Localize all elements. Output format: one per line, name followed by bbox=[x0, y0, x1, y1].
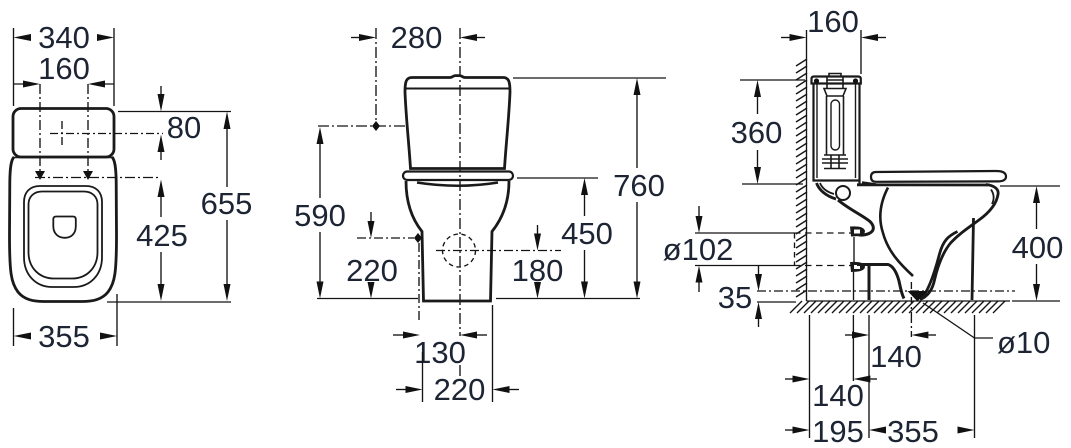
cistern outline bbox=[405, 76, 510, 169]
pedestal front vertical bbox=[972, 218, 974, 300]
svg-text:180: 180 bbox=[512, 253, 564, 288]
svg-text:360: 360 bbox=[731, 115, 783, 150]
foot left block bbox=[857, 265, 904, 299]
dim 80 top arrow bbox=[158, 94, 165, 112]
trap centre ext dash-dot bbox=[910, 314, 912, 337]
hinge detail bbox=[862, 183, 876, 185]
svg-text:ø10: ø10 bbox=[997, 325, 1050, 360]
bowl outline bbox=[10, 157, 117, 302]
hole markers bbox=[35, 171, 45, 180]
dim 355 arrows bbox=[869, 427, 886, 434]
dim 195 arrow bbox=[793, 427, 810, 434]
dim 80 bottom arrow bbox=[158, 135, 165, 153]
lower outlet hook bbox=[850, 262, 865, 272]
floor extension line bbox=[317, 298, 640, 300]
floor hatching bbox=[790, 301, 1005, 313]
bowl back edge bbox=[853, 237, 855, 262]
svg-text:760: 760 bbox=[613, 168, 665, 203]
fixing hole centerline right bbox=[87, 84, 89, 176]
supply line vertical bbox=[375, 28, 377, 126]
drain hole bbox=[53, 217, 76, 238]
seat band bbox=[403, 172, 513, 181]
dim 360 ext lines bbox=[740, 80, 805, 184]
svg-text:220: 220 bbox=[346, 253, 398, 288]
seat inner ring bbox=[29, 192, 98, 279]
trap dashed circle bbox=[443, 234, 476, 267]
drain cross dash-dot bbox=[910, 282, 912, 314]
wall line bbox=[806, 30, 808, 301]
svg-text:340: 340 bbox=[38, 20, 90, 55]
svg-text:ø102: ø102 bbox=[663, 232, 734, 267]
outlet axis dash-dot bbox=[757, 290, 1015, 292]
dim 140a arrows bbox=[852, 332, 869, 339]
dim 180 arrows bbox=[534, 234, 541, 251]
floor ext right bbox=[1012, 300, 1060, 302]
seat outer ring bbox=[24, 186, 102, 287]
outlet line upper bbox=[695, 232, 794, 234]
svg-text:35: 35 bbox=[718, 280, 752, 315]
below-floor ext lines bbox=[810, 315, 975, 438]
seat and cover side bbox=[871, 171, 1006, 182]
bowl front sweep bbox=[920, 185, 998, 300]
supply line horizontal bbox=[318, 125, 406, 127]
flush valve tube bbox=[827, 96, 844, 155]
dim 355 arrows bbox=[14, 333, 32, 340]
seat level ext right bbox=[1000, 185, 1060, 187]
trap cross dash-dot bbox=[436, 250, 561, 252]
dim 425 line bottom bbox=[158, 284, 165, 301]
dim 450 line bbox=[581, 178, 588, 195]
bowl bottom extension bbox=[107, 301, 231, 303]
dim 425 line top bbox=[158, 180, 165, 198]
dim 140b arrows bbox=[793, 376, 810, 383]
svg-text:140: 140 bbox=[812, 378, 864, 413]
dim 160 arrows bbox=[23, 81, 40, 88]
flush channel S-curve bbox=[838, 200, 873, 235]
tank top extension line bbox=[118, 111, 231, 113]
upper outlet hook bbox=[850, 226, 865, 236]
valve base plates bbox=[822, 155, 848, 169]
svg-text:195: 195 bbox=[812, 414, 864, 448]
dim 360 line bbox=[754, 80, 761, 97]
dim 590 line bbox=[317, 127, 324, 144]
dim 340 arrows bbox=[14, 34, 32, 41]
tank (top view) bbox=[13, 109, 114, 158]
dim 35 arrows bbox=[755, 274, 762, 291]
inlet cross bbox=[50, 121, 163, 146]
center line bbox=[459, 28, 461, 336]
svg-text:160: 160 bbox=[807, 4, 859, 39]
dim 102 arrows bbox=[696, 216, 703, 233]
leader to drain bbox=[923, 303, 993, 338]
bowl body bbox=[406, 181, 509, 301]
supply node diamond bbox=[372, 121, 380, 131]
dim 130 arrows bbox=[403, 332, 420, 339]
svg-text:425: 425 bbox=[136, 218, 188, 253]
wall hole dashed edge bbox=[794, 233, 796, 266]
rim top line bbox=[857, 183, 988, 186]
bowl under-rim arc bbox=[417, 183, 498, 186]
svg-text:655: 655 bbox=[201, 186, 253, 221]
svg-text:590: 590 bbox=[294, 198, 346, 233]
bowl edge diamond node bbox=[414, 233, 422, 243]
svg-text:280: 280 bbox=[391, 20, 443, 55]
lid bolts bbox=[814, 78, 819, 83]
svg-text:80: 80 bbox=[167, 110, 201, 145]
dim 35 floor segment bbox=[757, 301, 796, 303]
cistern side body bbox=[814, 84, 860, 186]
inner bowl line bbox=[880, 188, 913, 277]
dim 160 ext right bbox=[860, 30, 862, 74]
svg-text:355: 355 bbox=[887, 414, 939, 448]
svg-text:220: 220 bbox=[434, 372, 486, 407]
flush button bbox=[827, 74, 843, 81]
flush valve top cap bbox=[824, 80, 846, 96]
outlet line lower bbox=[695, 265, 794, 267]
foot front edge bbox=[868, 266, 871, 300]
dim 280 arrows bbox=[359, 34, 376, 41]
holes axis dash-dot bbox=[35, 177, 160, 179]
svg-text:140: 140 bbox=[870, 339, 922, 374]
dim 220 left arrows bbox=[368, 221, 375, 238]
rim lip inner line bbox=[991, 190, 994, 205]
fixing hole centerline left bbox=[39, 84, 41, 176]
svg-text:355: 355 bbox=[38, 319, 90, 354]
dim 760 line bbox=[634, 78, 641, 95]
dim 400 line bbox=[1033, 186, 1040, 203]
bowl shoulder line bbox=[13, 157, 114, 159]
flush pipe circle bbox=[836, 186, 850, 200]
dim 160 arrows bbox=[790, 34, 807, 41]
cistern top extension bbox=[513, 77, 666, 79]
dim 655 line bbox=[224, 112, 231, 130]
drain point bbox=[908, 291, 928, 302]
wall hatching bbox=[796, 59, 807, 297]
cistern lid seam bbox=[405, 88, 510, 90]
seat level extension bbox=[517, 177, 598, 179]
flush elbow bbox=[817, 183, 837, 199]
dim 220 bottom arrows bbox=[406, 386, 423, 393]
svg-text:450: 450 bbox=[561, 216, 613, 251]
dim 340 extension lines bbox=[14, 28, 115, 106]
cistern side: lid bbox=[812, 77, 861, 84]
dim 220 bottom ext lines bbox=[423, 305, 493, 402]
flush valve float capsule bbox=[831, 100, 840, 150]
dim 355 extension lines bbox=[14, 294, 118, 346]
trap offset dash-dot bbox=[418, 243, 420, 322]
floor line bbox=[807, 300, 1011, 302]
trap level dash-dot left bbox=[357, 237, 414, 239]
trap right rise bbox=[920, 232, 958, 300]
svg-text:400: 400 bbox=[1012, 230, 1064, 265]
svg-text:160: 160 bbox=[38, 51, 90, 86]
